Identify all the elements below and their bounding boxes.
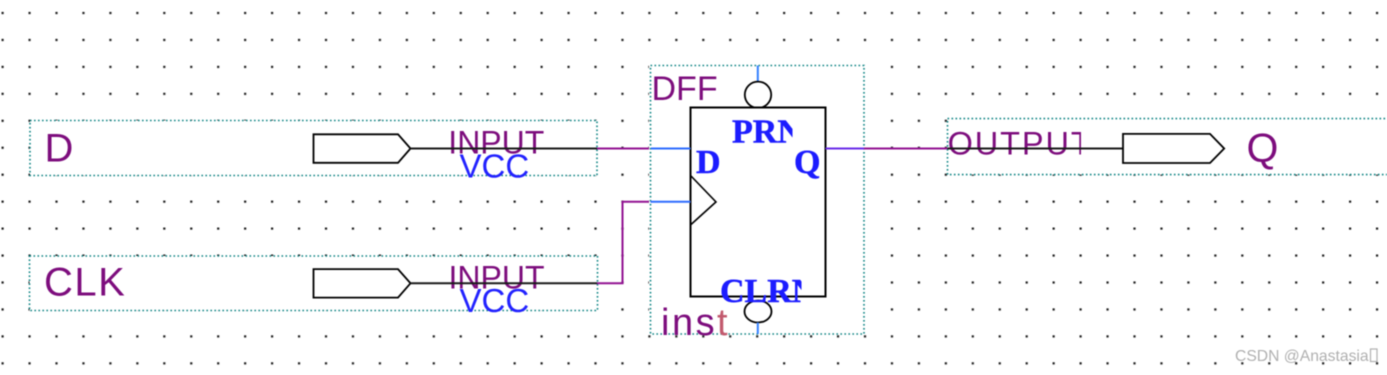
clock stub (blue) [651,201,691,203]
input pin symbol (D) [314,134,411,163]
svg-text:VCC: VCC [460,148,530,185]
PRN bubble [745,82,771,108]
clock edge triangle [691,176,716,225]
svg-text:ins: ins [661,302,717,344]
input pin D: selection box [30,121,597,176]
Q stub (violet) [826,148,865,150]
wire (purple net, DFF Q to output) [864,148,948,150]
CLRN bubble [745,301,772,323]
wire (black, CLK pin to box edge) [411,282,598,284]
svg-text:Q: Q [794,144,820,181]
svg-text:D: D [696,144,721,181]
wire (black, box edge to output pin) [948,148,1124,150]
svg-text:DFF: DFF [652,70,718,108]
DFF U1: selection box [649,66,868,335]
wire (purple net, D to DFF) [597,148,651,150]
svg-text:t: t [717,302,728,344]
svg-text:PRN: PRN [732,114,802,151]
input pin CLK: selection box [30,256,598,311]
svg-text:CSDN @Anastasia: CSDN @Anastasia [1235,348,1369,365]
DFF body [691,108,826,297]
wire (purple net, CLK to DFF clock, L-shaped) [597,202,651,283]
svg-text:VCC: VCC [460,282,530,319]
svg-text:CLK: CLK [44,261,126,305]
D stub (blue) [651,148,691,150]
watermark CSDN @Anastasia [1235,348,1377,365]
svg-text:Q: Q [1247,125,1279,171]
output pin symbol [1123,134,1224,163]
input pin symbol (CLK) [314,269,411,298]
svg-text:OUTPUT: OUTPUT [948,125,1093,161]
PRN stub (blue) [757,66,759,83]
wire (black, D pin to box edge) [411,148,598,150]
output pin Q: selection box [948,119,1387,175]
CLRN stub (blue) [757,323,759,335]
svg-text:D: D [45,127,74,171]
